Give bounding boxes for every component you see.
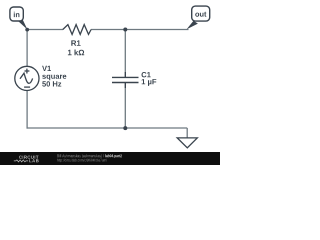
label V1 [42,66,51,71]
label C1 [142,72,151,77]
ground symbol [177,138,197,148]
footer bar [0,152,220,165]
footer logo zigzag [14,160,28,162]
wire: ground branch vertical drop [186,128,188,138]
label R1 [71,40,80,45]
footer credit line 1 [57,154,104,158]
wire: C1 bottom branch to bottom junction [124,88,126,129]
wire: left vertical, V1 bottom terminal down to bottom rail [26,91,28,129]
footer logo CIRCUIT [19,156,39,159]
flag: in terminal [10,7,28,30]
footer credit line 2 [57,159,107,163]
value square [42,75,66,81]
voltage source V1 circle body [15,66,39,90]
footer credit line 1 title [105,154,122,158]
wire: top right, resistor R1 to out flag [91,29,189,31]
value 1 uF [142,79,157,86]
wire: bottom rail from V1 branch to ground branch [27,127,188,129]
value 1 kOhm [68,50,84,56]
wire: left vertical, in corner down to V1 top terminal [26,30,28,68]
footer logo LAB [29,159,38,162]
wire: C1 top branch from top junction [124,30,126,73]
node: junction at C1 bottom / ground rail [123,126,127,130]
node: in flag corner joint [25,28,29,32]
value 50 Hz [42,81,61,86]
capacitor C1 plates [112,72,139,88]
flag: out terminal [187,6,210,29]
resistor R1 zigzag body [63,25,91,35]
wire: top left, in flag to resistor R1 [27,29,63,31]
node: junction at R1/C1/out [123,28,127,32]
